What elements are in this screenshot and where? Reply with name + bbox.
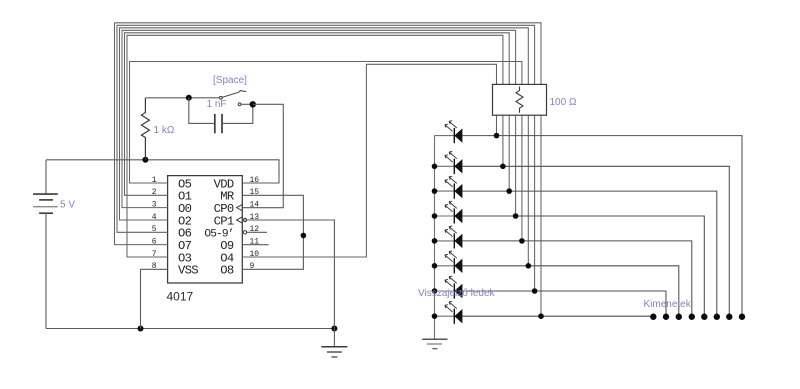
LED D3 <box>435 176 463 198</box>
terminal Kimenet 4 <box>689 314 695 320</box>
terminal Kimenet 3 <box>676 314 682 320</box>
svg-text:1 kΩ: 1 kΩ <box>154 125 175 136</box>
svg-text:[Space]: [Space] <box>213 75 247 86</box>
LED D7 <box>435 276 463 298</box>
ground symbol GND2 <box>422 339 447 349</box>
wire bus net pin4 O-output to resistor-pack column x=528.3 <box>120 28 529 266</box>
node pack-column/LED D8 junction <box>538 313 544 319</box>
wire LED D1 anode to output <box>462 136 742 317</box>
node rail/LED D3 junction <box>432 188 438 194</box>
svg-text:1 nF: 1 nF <box>207 99 227 110</box>
capacitor C1 1nF <box>189 98 253 134</box>
wire bus net pin5 O-output to resistor-pack column x=534.6 <box>117 25 535 291</box>
wire bus net pin1 O-output to resistor-pack column x=521.9 <box>130 62 522 241</box>
LED D1 <box>435 121 463 143</box>
wire ground rail <box>46 328 334 330</box>
node rail/LED D6 junction <box>432 263 438 269</box>
U1 CP1 inversion bubble pin13 <box>243 218 246 221</box>
LED D2 <box>435 152 463 174</box>
LED D4 <box>435 201 463 223</box>
wire LED D3 anode to output <box>462 191 716 317</box>
node rail/LED D8 junction <box>432 313 438 319</box>
wire LED D5 anode to output <box>462 241 691 317</box>
node rail/LED D7 junction <box>432 288 438 294</box>
wire LED D6 anode to output <box>462 266 678 317</box>
wire bus net pin3 O-output to resistor-pack column x=515.6 <box>122 30 516 216</box>
node pack-column/LED D6 junction <box>526 263 532 269</box>
wire LED D7 anode to output <box>462 291 666 317</box>
node pack-column/LED D7 junction <box>532 288 538 294</box>
U1 O5-9 inversion bubble pin12 <box>243 231 246 234</box>
terminal Kimenet 7 <box>726 314 732 320</box>
wire MR pin15 to O8 pin9 <box>242 195 303 269</box>
stub pin11 <box>242 244 268 246</box>
wire bus net pin6 O-output to resistor-pack column x=541.0 <box>115 23 542 316</box>
svg-text:Kimenetek: Kimenetek <box>644 299 692 310</box>
wire bus net pin7 O-output to resistor-pack column x=502.9 <box>127 35 503 257</box>
U1 CP1 clock wedge pin13 <box>237 217 243 223</box>
node pack-column/LED D5 junction <box>519 238 525 244</box>
resistor R1 1k <box>141 98 149 160</box>
svg-text:VSS: VSS <box>178 264 198 278</box>
node rail/LED D2 junction <box>432 164 438 170</box>
svg-text:CP1: CP1 <box>214 214 234 228</box>
node pack-column/LED D1 junction <box>494 133 500 139</box>
svg-text:Visszajelző ledek: Visszajelző ledek <box>418 288 496 299</box>
LED D5 <box>435 226 463 248</box>
wire R1 top to switch <box>145 97 219 99</box>
node on MR wire <box>301 233 307 239</box>
resistor pack RN1 100 Ohm body <box>493 84 547 115</box>
svg-text:4017: 4017 <box>167 289 194 303</box>
wire bus net pin2 O-output to resistor-pack column x=509.2 <box>125 33 510 196</box>
terminal Kimenet 5 <box>701 314 707 320</box>
svg-text:O8: O8 <box>220 264 234 278</box>
battery V1 5V <box>33 160 58 329</box>
terminal Kimenet 1 <box>650 314 656 320</box>
ground symbol GND1 <box>321 329 347 358</box>
switch S1 [Space] <box>220 90 253 106</box>
svg-text:16: 16 <box>250 176 260 185</box>
wire VSS pin8 to ground rail <box>141 269 168 328</box>
wire O4 pin10 net to resistor-pack column x=496.5 <box>242 64 496 257</box>
node +5V/R1 junction <box>142 157 148 163</box>
stub pin12 <box>247 231 267 233</box>
node R1/C1 junction <box>186 95 192 101</box>
svg-text:100 Ω: 100 Ω <box>550 97 577 108</box>
wire switch node to CP0 pin14 <box>242 104 283 207</box>
terminal Kimenet 2 <box>663 314 669 320</box>
node pack-column/LED D2 junction <box>500 164 506 170</box>
LED D8 <box>435 301 463 323</box>
node VSS/ground rail junction <box>138 326 144 332</box>
wire LED D8 anode to output <box>462 315 653 317</box>
node pack-column/LED D3 junction <box>506 188 512 194</box>
U1 CP0 clock wedge pin14 <box>237 204 243 210</box>
svg-text:14: 14 <box>250 200 260 209</box>
wire +5V rail to VDD pin16 <box>46 160 279 183</box>
IC U1 4017 body <box>168 176 243 283</box>
wire CP1 pin13 to ground <box>242 220 334 329</box>
terminal Kimenet 8 <box>739 314 745 320</box>
node pack-column/LED D4 junction <box>513 213 519 219</box>
node rail/LED D4 junction <box>432 213 438 219</box>
wire LED D2 anode to output <box>462 166 729 316</box>
wire LED D4 anode to output <box>462 216 704 317</box>
node CP1/ground rail junction <box>331 326 337 332</box>
LED D6 <box>435 251 463 273</box>
svg-text:5 V: 5 V <box>60 200 75 211</box>
node switch/C1 junction <box>250 101 256 107</box>
terminal Kimenet 6 <box>714 314 720 320</box>
wire LED cathode rail <box>434 136 436 339</box>
node rail/LED D5 junction <box>432 238 438 244</box>
